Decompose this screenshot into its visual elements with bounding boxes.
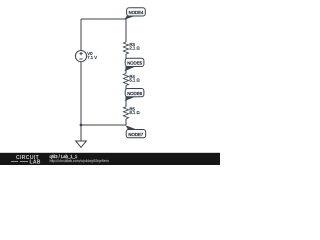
svg-text:5.1 Ω: 5.1 Ω [130, 78, 140, 83]
wire right vertical seg1 [125, 19, 127, 42]
wire right vertical seg4 [125, 119, 127, 125]
svg-text:8.1 Ω: 8.1 Ω [130, 110, 140, 115]
resistor R3 [123, 42, 128, 54]
svg-text:NODE5: NODE5 [127, 61, 142, 66]
voltage source V0 circle [75, 51, 86, 62]
svg-text:NODE7: NODE7 [128, 132, 143, 137]
junction dot [80, 124, 83, 127]
wire top horizontal [81, 18, 126, 20]
resistor R4 [123, 74, 128, 86]
ground symbol [76, 141, 87, 147]
footer logo trace lines [11, 161, 28, 163]
node NODE6 flag box [125, 89, 144, 97]
V0 plus sign [79, 52, 82, 55]
wire left vertical lower [80, 62, 82, 126]
svg-text:7.1 V: 7.1 V [87, 55, 97, 60]
footer bar [0, 153, 220, 165]
resistor R5 [123, 107, 128, 119]
node NODE5 flag box [125, 58, 144, 66]
node NODE4 flag box [127, 8, 146, 16]
node NODE6 flag pennant [125, 97, 136, 101]
node NODE7 flag box [126, 130, 146, 138]
svg-text:http://circuitlab.com/c/p4dwp5: http://circuitlab.com/c/p4dwp53rpr6ern [50, 159, 109, 163]
svg-text:LAB: LAB [30, 160, 41, 166]
node NODE5 flag pennant [124, 66, 135, 71]
wire left vertical upper [80, 19, 82, 51]
svg-text:NODE4: NODE4 [129, 10, 144, 15]
wire ground stub [80, 125, 82, 141]
node NODE7 flag pennant [126, 125, 138, 130]
V0 minus sign [79, 58, 82, 60]
wire bottom horizontal [81, 124, 126, 126]
svg-text:2.1 Ω: 2.1 Ω [130, 46, 140, 51]
node NODE4 flag pennant [124, 16, 135, 20]
svg-text:NODE6: NODE6 [127, 91, 142, 96]
wire right vertical seg3 [125, 86, 127, 107]
wire right vertical seg2 [125, 54, 127, 74]
